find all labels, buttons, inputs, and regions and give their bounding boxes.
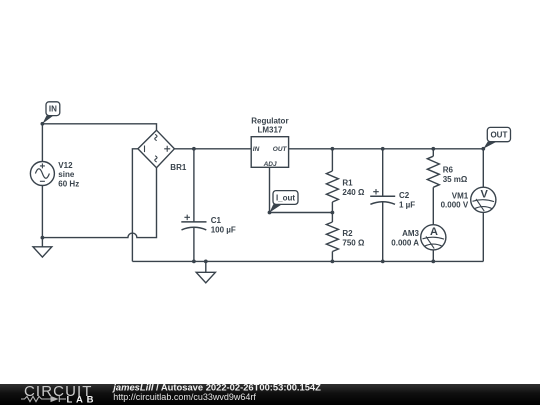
svg-text:750 Ω: 750 Ω <box>342 238 365 247</box>
svg-text:C2: C2 <box>399 191 410 200</box>
svg-text:240 Ω: 240 Ω <box>342 188 365 197</box>
svg-text:BR1: BR1 <box>170 163 187 172</box>
svg-text:V12: V12 <box>58 161 73 170</box>
svg-text:IN: IN <box>253 146 260 153</box>
svg-text:A: A <box>430 226 438 238</box>
svg-text:OUT: OUT <box>490 130 507 139</box>
svg-text:IN: IN <box>49 105 57 114</box>
svg-text:60 Hz: 60 Hz <box>58 180 79 189</box>
svg-text:1 µF: 1 µF <box>399 200 415 209</box>
svg-text:ADJ: ADJ <box>263 161 277 168</box>
svg-text:jamesLill / Autosave 2022-02-2: jamesLill / Autosave 2022-02-26T00:53:00… <box>112 382 321 393</box>
svg-text:35 mΩ: 35 mΩ <box>443 175 468 184</box>
svg-text:0.000 V: 0.000 V <box>441 201 469 210</box>
svg-text:AM3: AM3 <box>402 229 419 238</box>
svg-text:sine: sine <box>58 170 75 179</box>
svg-text:http://circuitlab.com/cu33wvd9: http://circuitlab.com/cu33wvd9w64rf <box>113 392 256 402</box>
svg-text:100 µF: 100 µF <box>211 225 236 234</box>
svg-text:R6: R6 <box>443 165 454 174</box>
svg-text:R1: R1 <box>342 178 353 187</box>
svg-text:I_out: I_out <box>276 193 295 202</box>
svg-text:C1: C1 <box>211 216 222 225</box>
svg-text:LM317: LM317 <box>257 125 282 134</box>
svg-text:Regulator: Regulator <box>251 116 288 125</box>
svg-text:0.000 A: 0.000 A <box>391 238 419 247</box>
svg-text:OUT: OUT <box>273 146 288 153</box>
svg-text:LAB: LAB <box>67 395 98 405</box>
svg-text:R2: R2 <box>342 229 353 238</box>
svg-text:V: V <box>481 188 489 200</box>
svg-text:VM1: VM1 <box>452 191 469 200</box>
